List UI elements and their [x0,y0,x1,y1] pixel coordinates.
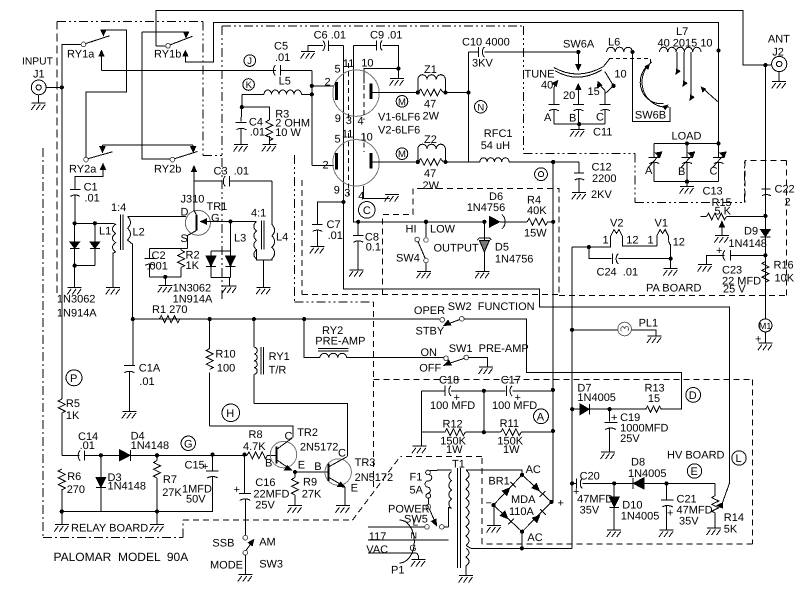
diode D8 1N4005 [614,457,666,489]
capacitor C1A [124,319,161,411]
node C9 pin10 [396,67,400,71]
tube V2 cathode bar [335,153,338,169]
svg-text:OFF: OFF [419,363,441,375]
wire V2 pin1 to rail [572,241,611,247]
capacitor C9 [353,30,402,69]
svg-text:270: 270 [67,484,85,496]
capacitor C1 [70,182,100,224]
PA tune box dash-dot border [524,26,745,203]
svg-text:27K: 27K [162,487,182,499]
svg-text:RFC1: RFC1 [484,128,513,140]
svg-text:C10 4000: C10 4000 [462,37,510,49]
svg-text:47: 47 [424,168,436,180]
svg-text:TR2: TR2 [297,427,318,439]
node bias line start [356,220,360,224]
wire TR1 diode bottoms [211,276,231,278]
wire TR2 E to TR3 B [295,471,328,473]
svg-text:C5: C5 [274,41,288,53]
resistor R3 2 OHM 10W [242,107,310,144]
capacitor C24 .01 [587,245,671,279]
switch SW4 [396,222,479,271]
svg-text:TR3: TR3 [355,457,376,469]
svg-text:.01: .01 [328,230,343,242]
transistor TR2 2N5172 [265,426,338,472]
capacitor C16 22MFD 25V [234,455,290,535]
svg-text:11: 11 [342,129,353,141]
tube V1 filament [648,218,685,249]
node C16 top [242,453,246,457]
capacitor C12 2200 2KV [574,162,616,202]
svg-text:SW6A: SW6A [563,39,595,51]
node R4 right [551,220,555,224]
resistor R4 40K 15W [500,195,553,240]
svg-text:D9: D9 [744,226,758,238]
svg-text:1N4756: 1N4756 [467,202,506,214]
svg-text:.001: .001 [147,261,168,273]
svg-text:15: 15 [588,86,600,98]
svg-text:1N4005: 1N4005 [577,392,616,404]
antenna J2 [768,34,790,72]
svg-text:C12: C12 [592,162,612,174]
svg-text:35V: 35V [580,505,600,517]
svg-text:1: 1 [603,235,609,247]
svg-text:1N4756: 1N4756 [495,254,534,266]
svg-text:LOAD: LOAD [672,131,702,143]
svg-text:10 W: 10 W [275,127,301,139]
wire Z1 to C10 node [445,92,468,94]
resistor R5 [58,398,80,455]
capacitor C17 100MFD [484,386,553,412]
diode D4 1N4148 [101,431,169,461]
ground BR1 minus [487,503,502,533]
svg-text:1K: 1K [66,410,80,422]
ground C1A [122,411,137,418]
diode D1 1N3062 [70,223,80,265]
svg-text:.01: .01 [275,52,290,64]
ground C4 [234,145,249,152]
diode D6 1N4756 [467,191,506,229]
svg-text:5A: 5A [410,485,424,497]
svg-text:25V: 25V [620,433,640,445]
svg-text:3: 3 [346,115,352,127]
capacitor C19 1000MFD 25V [604,409,668,452]
tube V1 plate bar [370,84,373,100]
relay RY1b [142,32,193,159]
node RY1 top [252,317,256,321]
svg-text:10: 10 [361,132,373,144]
capacitor C5 [273,41,311,76]
ground M1 [758,332,773,350]
svg-text:100 MFD: 100 MFD [430,400,475,412]
svg-text:15W: 15W [524,228,547,240]
tap 20 [563,84,581,104]
capacitor C15 1MFD 50V [182,455,218,512]
svg-text:2200: 2200 [592,173,616,185]
svg-text:L: L [413,518,419,529]
svg-text:1W: 1W [503,444,520,456]
capacitor C13-A variable [645,143,662,181]
svg-text:J310: J310 [181,194,205,206]
svg-text:C: C [596,112,604,124]
inductor L5 [242,76,312,95]
svg-text:L7: L7 [676,26,688,38]
circle P [66,370,82,386]
resistor R1 270 [133,304,210,323]
svg-text:N: N [477,102,484,113]
ground C19 [601,452,616,459]
node cathode C7 tap [341,200,345,204]
transformer T-L1/L2 1:4 [99,202,145,319]
svg-text:D: D [181,207,189,219]
svg-text:Z1: Z1 [424,64,437,76]
wire BR1 plus up [552,431,554,503]
svg-text:M1: M1 [759,321,772,331]
svg-text:11: 11 [343,58,354,70]
svg-text:P: P [70,373,77,385]
wire relay control line [133,318,440,320]
svg-text:C11: C11 [593,127,612,139]
relay RY2a [69,145,113,189]
svg-text:1K: 1K [186,260,200,272]
diode D10 1N4005 [609,483,659,530]
diode D 1N3062 (TR1) [206,222,230,278]
svg-text:B: B [569,113,576,125]
transistor TR3 2N5172 [314,448,393,506]
resistor R8 4.7K [243,429,276,459]
capacitor C3 [194,166,272,187]
diode D3 1N4148 [96,455,146,511]
svg-text:100 MFD: 100 MFD [492,400,537,412]
wire V2 pin4 to ground [364,186,400,202]
svg-text:RY2b: RY2b [154,164,181,176]
svg-text:110A: 110A [509,506,535,518]
svg-text:+: + [234,484,240,496]
svg-text:5: 5 [335,64,341,76]
diode D9 1N4148 [728,226,770,251]
wire R10 to TR2 collector [210,426,294,437]
tube V2 filament [603,218,639,247]
svg-text:PA BOARD: PA BOARD [646,283,701,295]
wire gate to L3 [231,221,257,223]
transformer T1 [449,459,522,576]
ALC rail down from J2 [764,65,766,319]
PLACEHOLDER-RIGHT [133,301,682,455]
choke Z1 with resistor 47 2W [416,64,448,123]
svg-text:SW4: SW4 [396,253,420,265]
resistor R10 100 [206,319,235,426]
svg-text:3: 3 [344,188,350,200]
svg-text:PL1: PL1 [639,318,659,330]
circle O [535,168,548,181]
svg-text:4.7K: 4.7K [243,441,266,453]
wire J1 node up to RY1a pivot [62,44,82,87]
svg-text:E: E [298,460,305,472]
node C19 [608,407,612,411]
tube V1 grid dashes [348,63,350,120]
bridge BR1 MDA 110A [486,464,564,548]
svg-text:R1 270: R1 270 [152,304,187,316]
svg-text:M: M [398,149,406,160]
switch SW6A node and arrow [563,39,595,71]
capacitor C13-B variable [678,143,695,181]
ground TR3 [336,506,351,513]
ground J2 [772,72,787,89]
svg-text:R14: R14 [724,512,744,524]
circle N [475,101,487,114]
svg-text:F1: F1 [410,472,423,484]
svg-text:C1A: C1A [139,363,161,375]
capacitor C13-C variable [710,143,727,181]
svg-text:5 K: 5 K [715,206,732,218]
svg-text:R10: R10 [215,349,235,361]
tap 15 and 10 links [588,69,627,105]
svg-text:C13: C13 [703,186,723,198]
tube V2 plate bar [370,153,373,169]
meter M1 [755,319,772,346]
svg-text:V1-6LF6: V1-6LF6 [378,112,420,124]
svg-text:HV BOARD: HV BOARD [667,450,725,462]
node C21 [664,481,668,485]
ground C7 [310,246,325,253]
node pin2 V1 [310,84,314,88]
svg-text:N: N [411,531,418,541]
circle C [359,202,376,219]
svg-text:C9 .01: C9 .01 [370,30,402,42]
svg-text:15: 15 [648,393,660,405]
svg-text:E: E [351,483,358,495]
wire C2 R2 bottom [150,276,182,278]
capacitor C8 [353,222,381,270]
wire mid vertical [483,391,485,432]
svg-text:12: 12 [626,235,638,247]
ground R15 [714,236,729,243]
label V1-6LF6 V2-6LF6 [378,112,420,137]
svg-text:J1: J1 [33,69,45,81]
resistor R13 15 [610,383,665,413]
tap 40 [541,80,558,105]
choke Z2 with resistor 47 2W [416,134,448,192]
wire top line B (RY1b NO to L7) [185,22,719,62]
circle K [243,79,255,91]
relay RY2b [154,145,197,181]
capacitor C14 [62,431,101,461]
svg-text:5: 5 [335,134,341,146]
svg-text:54 uH: 54 uH [481,140,510,152]
diode D2 1N914A [90,221,100,265]
capacitor C22 [762,184,795,209]
svg-text:L: L [736,453,742,465]
svg-text:+: + [716,245,722,257]
PLACEHOLDER-MID [646,184,795,351]
ground SW4 [417,271,432,278]
ground R7 [150,512,165,532]
tube V1 cathode bar [335,82,338,100]
svg-text:G: G [184,438,193,450]
svg-text:.01: .01 [139,376,154,388]
svg-text:D8: D8 [631,457,645,469]
wire C6 cathode line down to 289 and across to 307 [344,46,730,506]
wire top line A [156,10,772,65]
node TR1 gate [228,219,232,223]
ground R14 [707,528,722,535]
svg-text:4:1: 4:1 [251,208,266,220]
svg-text:D5: D5 [495,242,509,254]
svg-text:9: 9 [335,113,341,125]
node TR2 emitter [293,470,297,474]
resistor R2 [178,249,200,277]
circle A [534,409,549,424]
svg-text:2: 2 [785,197,791,209]
wire diode pair bottom [75,265,95,267]
svg-text:R11: R11 [500,418,519,430]
switch SW6B arc [640,62,670,111]
svg-text:TUNE: TUNE [525,69,555,81]
wire C11 bank bottom [554,123,605,125]
ground R6 [54,512,69,532]
svg-text:C18: C18 [439,375,459,387]
switch SW5 POWER [388,498,449,529]
node RY2 top [302,317,306,321]
capacitor C4 [235,107,265,144]
svg-text:27K: 27K [302,489,322,501]
svg-text:2N5172: 2N5172 [355,472,394,484]
circle E [687,464,701,478]
resistor R12 150K 1W [421,419,484,457]
svg-text:RY1a: RY1a [67,49,95,61]
svg-text:M: M [398,97,406,108]
circle M upper [396,96,408,108]
svg-text:1N4005: 1N4005 [621,511,660,523]
svg-text:S: S [181,233,188,245]
ground TR1 diodes [222,277,237,293]
wire C5 node down [311,70,313,165]
node C10 vertical [466,90,470,94]
wire L7 down to LOAD [718,22,720,143]
circle L [732,451,746,465]
svg-text:.01: .01 [250,127,265,139]
wire D8 to R14 [667,482,716,484]
circle M lower [396,148,408,160]
diode D 1N914A (TR1) [226,251,236,277]
svg-text:25V: 25V [255,500,275,512]
capacitor C20 47MFD 35V [572,471,614,517]
resistor R9 27K [292,472,323,506]
svg-text:V2: V2 [610,218,623,230]
svg-text:4: 4 [358,116,364,128]
svg-text:E: E [691,466,698,478]
switch SW3 MODE [210,535,283,574]
capacitor C18 100MFD [421,386,484,412]
svg-text:R6: R6 [67,471,81,483]
ground diode pair [67,266,82,295]
svg-text:50V: 50V [186,494,206,506]
svg-text:20: 20 [563,90,575,102]
svg-text:K: K [246,80,253,91]
svg-text:2KV: 2KV [591,189,612,201]
svg-text:R8: R8 [249,429,263,441]
svg-text:HI: HI [406,224,417,236]
ground T1 lower winding [459,576,474,583]
ground SW1 [468,358,493,375]
node C20 [570,481,574,485]
transformer T-L3/L4 4:1 [234,181,288,260]
svg-text:10: 10 [361,58,373,70]
svg-text:L4: L4 [276,232,288,244]
wire RY2a NC to RY2b NC [103,144,194,146]
relay coil RY2 PRE-AMP [304,319,444,358]
svg-text:V2-6LF6: V2-6LF6 [378,125,420,137]
svg-text:TR1: TR1 [207,201,228,213]
wire G row [157,454,244,456]
svg-text:STBY: STBY [416,326,445,338]
svg-text:1N4148: 1N4148 [108,481,147,493]
tube V1 pin labels [325,58,374,128]
plug P1 117VAC [366,518,448,577]
svg-text:G: G [410,543,417,553]
node R12/R11 [482,430,486,434]
wire V2 pin12 to V1 pin1 [622,241,657,247]
inductor L7 [658,26,721,53]
diode D7 1N4005 [570,383,616,415]
node D10 [612,481,616,485]
resistor R11 150K 1W [484,418,553,456]
wire SW2 to D7 line [464,319,682,409]
capacitor C10 4000 3KV [462,37,578,70]
svg-text:SSB: SSB [212,538,234,550]
svg-text:C: C [363,205,371,217]
filament rail down [571,247,573,548]
capacitor C21 47MFD 35V [661,483,712,530]
node C1 bottom [73,221,77,225]
ground PL1 [647,336,662,343]
ground L1 [106,284,121,294]
resistor R6 [58,469,85,512]
wire V1 pin12 down [670,244,672,259]
resistor R7 [154,455,183,511]
svg-text:C: C [710,166,718,178]
svg-text:C3 .01: C3 .01 [214,166,249,178]
node L2/R1/C1A [131,317,135,321]
svg-text:C20: C20 [580,471,600,483]
tube V2 6LF6 envelope [333,140,379,186]
svg-text:R16: R16 [774,260,794,272]
potentiometer R14 5K [712,483,744,535]
svg-text:−: − [486,498,492,510]
svg-text:C: C [338,448,346,460]
ground C12 [572,193,587,200]
svg-text:R12: R12 [443,419,463,431]
zener D5 1N4756 [477,222,533,271]
wire V2 plate to Z2 [373,161,418,163]
wire to V1 pin2 [312,85,334,87]
main input wire [102,69,277,71]
switch SW2 FUNCTION [414,301,535,338]
relay board dash-dot border [43,148,183,538]
wire pin10 [364,69,398,84]
node L5 right [310,92,314,96]
svg-text:9: 9 [334,185,340,197]
wire LOAD top [654,142,718,144]
svg-text:V1: V1 [655,218,668,230]
svg-text:40: 40 [541,80,553,92]
ground C21 [659,530,674,537]
capacitor C6 [301,30,347,59]
svg-text:10K: 10K [775,273,795,285]
svg-text:RY1b: RY1b [154,49,181,61]
svg-text:B: B [265,458,272,470]
switch SW1 PRE-AMP [419,343,529,375]
wire V1 plate to Z1 [373,92,418,94]
